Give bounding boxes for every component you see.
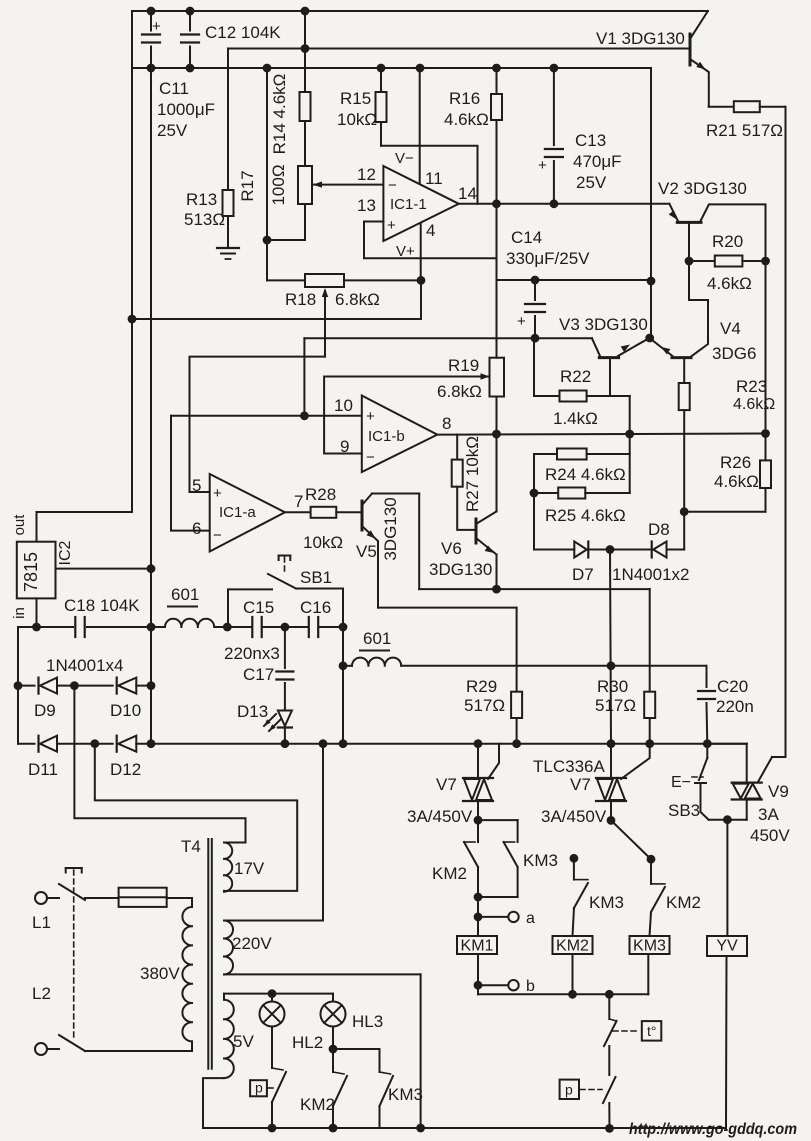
wire line y=338 [304, 337, 592, 339]
svg-text:KM3: KM3 [523, 851, 558, 870]
node a-b chain top [474, 893, 483, 902]
potentiometer R19 [490, 358, 505, 397]
lamp HL3 [321, 994, 346, 1027]
label p box lower [560, 1080, 602, 1099]
label V4 [712, 319, 756, 363]
wire ref line y=356.6 [190, 357, 326, 492]
resistor R20 [689, 256, 766, 267]
label pin 9 [340, 437, 349, 456]
svg-text:R22: R22 [560, 367, 591, 386]
resistor R24 [534, 449, 630, 460]
svg-text:14: 14 [458, 184, 477, 203]
node IC2 gnd [147, 564, 156, 573]
relay coil YV [707, 936, 747, 956]
wire trigger line y=666 [343, 665, 707, 667]
node coil bus [568, 990, 614, 999]
wire V9 bottom [709, 819, 747, 821]
label V5 [356, 542, 377, 561]
wire to terminal a [474, 897, 509, 936]
watermark [629, 1121, 797, 1138]
svg-text:IC1-b: IC1-b [368, 428, 405, 445]
svg-text:HL3: HL3 [352, 1012, 383, 1031]
node p bottom [605, 1124, 614, 1133]
label R13 [184, 190, 225, 229]
svg-text:V3 3DG130: V3 3DG130 [559, 315, 648, 334]
svg-text:L2: L2 [32, 984, 51, 1003]
wire V9 gate [759, 757, 786, 781]
svg-text:R27 10kΩ: R27 10kΩ [463, 436, 482, 512]
op-amp IC1-b [362, 396, 438, 473]
svg-text:5V: 5V [233, 1032, 254, 1051]
label V9 rating [750, 805, 790, 845]
label pin 7 [294, 492, 303, 511]
label V6 [429, 539, 492, 579]
svg-text:+: + [387, 217, 396, 234]
svg-text:C12 104K: C12 104K [205, 23, 281, 42]
svg-text:C17: C17 [243, 665, 274, 684]
svg-text:p: p [255, 1080, 263, 1096]
label R20 [707, 232, 752, 293]
svg-text:C20: C20 [717, 677, 748, 696]
wire L2 to primary [85, 1041, 192, 1051]
svg-text:8: 8 [442, 414, 451, 433]
resistor R21 [709, 101, 786, 112]
label V9 [768, 782, 789, 801]
wire fuse to primary [167, 898, 192, 907]
svg-text:220V: 220V [232, 934, 272, 953]
svg-text:out: out [11, 514, 28, 536]
svg-text:R19: R19 [448, 356, 479, 375]
capacitor C12 [181, 11, 199, 68]
label 220V [232, 934, 272, 953]
svg-text:KM2: KM2 [300, 1095, 335, 1114]
svg-text:7: 7 [294, 492, 303, 511]
wire R24/R25 left column [533, 454, 535, 550]
wire R15 to output [381, 146, 478, 204]
label KM3 bottom [388, 1085, 423, 1104]
wire V3 base [609, 358, 611, 396]
wire x=651 column [650, 68, 652, 338]
node C14 bottom [531, 334, 540, 343]
node R20 ends [685, 257, 770, 266]
label T4 [181, 837, 201, 856]
potentiometer R18 [305, 274, 421, 287]
triac V7b [596, 744, 626, 821]
svg-text:6: 6 [192, 519, 201, 538]
svg-text:T4: T4 [181, 837, 201, 856]
resistor R25 [534, 488, 630, 499]
label KM2 middle [666, 893, 701, 912]
svg-text:3A/450V: 3A/450V [541, 807, 607, 826]
label IC1-a [219, 504, 256, 521]
transformer core [208, 839, 212, 1069]
diode D10 [117, 678, 137, 694]
switch SB1 actuator [279, 556, 291, 574]
label R17 [238, 170, 257, 201]
contact KM3 middle [570, 854, 588, 936]
label C20 [716, 677, 754, 716]
svg-text:V−: V− [395, 150, 414, 167]
label p box left [250, 1080, 277, 1097]
svg-text:450V: 450V [750, 826, 790, 845]
wire pin 13 feedback [364, 222, 497, 259]
node triac V7a bottom [474, 816, 483, 825]
wire 5V bottom [203, 1078, 224, 1128]
wire emitter line y=589 [419, 588, 650, 590]
resistor R14 [300, 11, 311, 166]
wire R16 column middle [496, 204, 498, 434]
wire bridge AC2 [95, 744, 297, 891]
label R23 [733, 377, 775, 413]
label 601 no1 [168, 585, 199, 607]
lamp HL2 [260, 989, 285, 1026]
node D7/D8 junction [606, 545, 615, 554]
svg-text:100Ω: 100Ω [269, 164, 288, 205]
svg-text:V1 3DG130: V1 3DG130 [596, 29, 685, 48]
inductor 601 no1 [165, 619, 227, 627]
contact KM3 below V7a [478, 820, 518, 897]
node R17 bottom [263, 236, 272, 245]
op-amp IC1-a [210, 474, 285, 552]
svg-text:3A/450V: 3A/450V [407, 807, 473, 826]
label D7 [572, 565, 594, 584]
label D8 [648, 520, 670, 539]
diode D7 [574, 542, 588, 558]
svg-text:601: 601 [363, 629, 391, 648]
terminal L1 [32, 892, 51, 932]
wire pin6 loop [171, 416, 210, 531]
resistor R15 [376, 68, 387, 146]
label pin 11 [425, 169, 443, 188]
wire bridge left [17, 627, 19, 744]
wire x=765.5 down [765, 261, 767, 434]
svg-text:R26: R26 [720, 453, 751, 472]
label pin 8 [442, 414, 451, 433]
svg-text:220n: 220n [716, 697, 754, 716]
wire IC2 in [36, 598, 38, 627]
svg-text:6.8kΩ: 6.8kΩ [437, 382, 482, 401]
wire rail y=68 [132, 67, 651, 69]
svg-text:C14: C14 [511, 228, 542, 247]
wire row y=744 right [285, 743, 747, 745]
label 17V [234, 859, 265, 878]
capacitor C17 [276, 627, 293, 709]
label R25 [545, 506, 626, 525]
wire D7D8 column [610, 550, 611, 744]
svg-text:KM3: KM3 [388, 1085, 423, 1104]
node trigger line [339, 661, 616, 670]
node row627 [32, 623, 155, 632]
svg-text:R16: R16 [449, 89, 480, 108]
svg-text:E−: E− [671, 774, 691, 791]
capacitor C14 [517, 280, 545, 338]
label R22 [553, 367, 598, 428]
label KM3 contact [523, 851, 558, 870]
wire right spine x=785.5 [785, 107, 787, 757]
wire gnd column lower [150, 569, 152, 744]
transistor V2 [669, 204, 766, 261]
svg-text:HL2: HL2 [292, 1033, 323, 1052]
label D11 [28, 760, 58, 779]
resistor R26 [760, 434, 771, 512]
wire D11 row [18, 743, 283, 745]
label V7a [407, 775, 473, 826]
wire base line y=48.5 [228, 48, 689, 50]
label V3 [559, 315, 648, 334]
contact KM2 bottom [333, 1027, 347, 1129]
contact p-KM2 left [272, 1027, 286, 1129]
svg-text:R13: R13 [186, 190, 217, 209]
svg-text:V6: V6 [441, 539, 462, 558]
node R18 right [417, 276, 426, 285]
svg-text:R30: R30 [597, 677, 628, 696]
label 220nx3 [224, 644, 280, 663]
svg-text:V4: V4 [720, 319, 741, 338]
wire pin 11 [419, 68, 421, 184]
node line y=280 [531, 276, 656, 286]
svg-text:KM2: KM2 [556, 938, 589, 955]
node 15V line [128, 315, 137, 324]
svg-text:517Ω: 517Ω [595, 696, 636, 715]
label V1 [596, 29, 685, 48]
label V5 3DG130 [381, 497, 400, 560]
svg-text:25V: 25V [576, 173, 607, 192]
label D13 [237, 702, 268, 721]
svg-text:R29: R29 [466, 677, 497, 696]
resistor R16 [491, 68, 502, 204]
contact t-switch [604, 994, 617, 1075]
resistor R27 [452, 435, 475, 530]
label out [11, 514, 28, 536]
label R18 [285, 290, 380, 309]
regulator IC2 7815 [17, 542, 56, 599]
label KM2 bottom [300, 1095, 335, 1114]
svg-text:V2 3DG130: V2 3DG130 [658, 179, 747, 198]
transistor V3 [592, 338, 649, 357]
capacitor C16 [309, 617, 318, 637]
wire YV column [726, 820, 727, 1128]
wire C16 column [342, 589, 344, 744]
node HL3 branch [329, 1045, 338, 1054]
label R14 4.6kΩ [270, 74, 289, 155]
svg-text:b: b [526, 978, 535, 995]
svg-text:R21 517Ω: R21 517Ω [706, 121, 783, 140]
node V9 bottom [723, 815, 732, 824]
svg-text:D11: D11 [28, 760, 58, 779]
svg-text:SB1: SB1 [300, 568, 332, 587]
wire row y=627 left [18, 626, 165, 628]
terminal b [508, 978, 535, 995]
label 601 no2 [360, 629, 391, 651]
winding 5V [224, 1000, 234, 1078]
capacitor C13 [538, 68, 563, 204]
node R23 column [680, 507, 689, 516]
node C16 right [339, 623, 348, 632]
label KM2 contact [432, 864, 467, 883]
label V- V+ [395, 150, 415, 260]
svg-text:IC1-a: IC1-a [219, 504, 256, 521]
switch L2 [47, 1035, 85, 1051]
svg-text:C13: C13 [575, 131, 606, 150]
contact KM2 below V7a [464, 820, 478, 897]
wire 15V line y=319 [132, 280, 421, 319]
svg-text:C16: C16 [300, 598, 331, 617]
svg-text:R18: R18 [285, 290, 316, 309]
wire bridge AC1 [74, 686, 245, 843]
resistor R30 [644, 692, 655, 744]
label R16 [444, 89, 489, 129]
svg-text:6.8kΩ: 6.8kΩ [335, 290, 380, 309]
node bottom line [268, 1124, 425, 1133]
svg-text:12: 12 [357, 165, 376, 184]
label R19 [437, 356, 482, 401]
svg-text:4.6kΩ: 4.6kΩ [444, 110, 489, 129]
wire 220V top [224, 744, 323, 921]
wire to terminal b [474, 954, 509, 994]
relay coil KM1 [457, 936, 497, 955]
resistor R13 [223, 49, 234, 248]
svg-text:D8: D8 [648, 520, 670, 539]
label R24 [545, 465, 626, 484]
svg-text:TLC336A: TLC336A [533, 757, 605, 776]
svg-text:4: 4 [426, 221, 435, 240]
svg-text:380V: 380V [140, 964, 180, 983]
node triac V7b bottom [607, 816, 616, 825]
winding 220V [224, 921, 233, 975]
label pin 6 [192, 519, 201, 538]
svg-text:25V: 25V [157, 121, 188, 140]
svg-text:V7: V7 [436, 775, 457, 794]
label 100Ω [269, 164, 288, 205]
label C13 [573, 131, 622, 192]
resistor R23 [679, 358, 690, 550]
ground [217, 248, 239, 259]
relay coil KM2 [553, 936, 593, 955]
label R27 10kΩ [463, 436, 482, 512]
resistor R22 [560, 391, 587, 402]
label R30 [595, 677, 636, 715]
relay coil KM3 [630, 936, 670, 955]
wire V5 emitter path [378, 608, 517, 692]
transistor V4 [650, 338, 691, 357]
svg-text:220nx3: 220nx3 [224, 644, 280, 663]
triac V9 [707, 744, 761, 820]
svg-text:10kΩ: 10kΩ [303, 533, 343, 552]
contact p-switch lower [603, 1077, 616, 1128]
winding 380V [182, 907, 192, 1041]
label C15 [243, 598, 274, 617]
svg-text:10: 10 [334, 396, 353, 415]
label 1N4001x4 [46, 656, 124, 675]
svg-text:a: a [526, 910, 535, 927]
svg-text:3DG130: 3DG130 [381, 497, 400, 560]
svg-text:V9: V9 [768, 782, 789, 801]
switch SB1 [228, 574, 343, 627]
wire D9 row [18, 685, 151, 687]
label C11 value [157, 79, 215, 140]
wire IC1-b frame [324, 373, 489, 453]
wire pin 4 [420, 223, 422, 280]
label pin 10 [334, 396, 353, 415]
svg-text:D12: D12 [110, 760, 141, 779]
switch link dashed [66, 868, 82, 1037]
svg-text:t°: t° [647, 1023, 657, 1039]
svg-text:1000μF: 1000μF [157, 100, 215, 119]
wire coil bus [478, 954, 648, 994]
terminal a [508, 910, 535, 927]
label pin 13 [357, 196, 376, 215]
svg-text:330μF/25V: 330μF/25V [506, 249, 590, 268]
triac V7a [463, 744, 493, 820]
capacitor C20 [698, 666, 715, 744]
svg-text:1.4kΩ: 1.4kΩ [553, 409, 598, 428]
svg-text:5: 5 [192, 476, 201, 495]
label HL2 [292, 1033, 323, 1052]
label C14 [506, 228, 590, 268]
label 5V [233, 1032, 254, 1051]
inductor 601 no2 [352, 658, 401, 666]
svg-text:D7: D7 [572, 565, 594, 584]
svg-text:1N4001x2: 1N4001x2 [612, 565, 690, 584]
transistor V6 [476, 511, 497, 554]
label pin 14 [458, 184, 477, 203]
label R28 [303, 485, 343, 552]
label R21 [706, 121, 783, 140]
svg-text:SB3: SB3 [668, 801, 700, 820]
svg-text:470μF: 470μF [573, 152, 622, 171]
node top rail junctions [147, 7, 310, 16]
svg-text:R24 4.6kΩ: R24 4.6kΩ [545, 465, 626, 484]
svg-text:p: p [565, 1082, 573, 1098]
wire R22 left [534, 338, 560, 396]
wire R26 bottom link [684, 511, 765, 513]
switch L1 [47, 884, 85, 900]
wire V5 collector down [418, 494, 420, 590]
label V2 [658, 179, 747, 198]
svg-text:YV: YV [716, 938, 738, 955]
LED D13 [264, 711, 292, 744]
wire R30 column [649, 589, 651, 692]
contact KM2 middle [611, 820, 665, 936]
wire R18 wiper [322, 288, 328, 357]
label SB3 [668, 774, 703, 820]
wire top rail +V [132, 10, 708, 12]
switch SB3 [695, 744, 709, 820]
svg-text:R17: R17 [238, 170, 257, 201]
svg-text:1N4001x4: 1N4001x4 [46, 656, 124, 675]
label 1N4001x2 [612, 565, 690, 584]
label pin 12 [357, 165, 376, 184]
svg-text:KM3: KM3 [633, 938, 666, 955]
node C15 ends [223, 623, 289, 632]
wire line y=280 [497, 279, 652, 281]
svg-text:+: + [366, 408, 375, 425]
svg-text:IC2: IC2 [57, 540, 74, 565]
svg-text:4.6kΩ: 4.6kΩ [714, 472, 759, 491]
wire V7a gate [488, 744, 499, 779]
label IC2 [57, 540, 74, 565]
wire bottom line [203, 1127, 726, 1129]
svg-text:C18 104K: C18 104K [64, 596, 140, 615]
potentiometer R17 100Ω [267, 166, 312, 240]
wire 220V bottom [224, 974, 421, 1128]
wire V7b gate [621, 744, 650, 779]
wire R17 column [267, 68, 305, 280]
svg-text:R25 4.6kΩ: R25 4.6kΩ [545, 506, 626, 525]
wire gnd spine x=151 [150, 68, 152, 569]
svg-text:513Ω: 513Ω [184, 210, 225, 229]
svg-text:V7: V7 [570, 775, 591, 794]
